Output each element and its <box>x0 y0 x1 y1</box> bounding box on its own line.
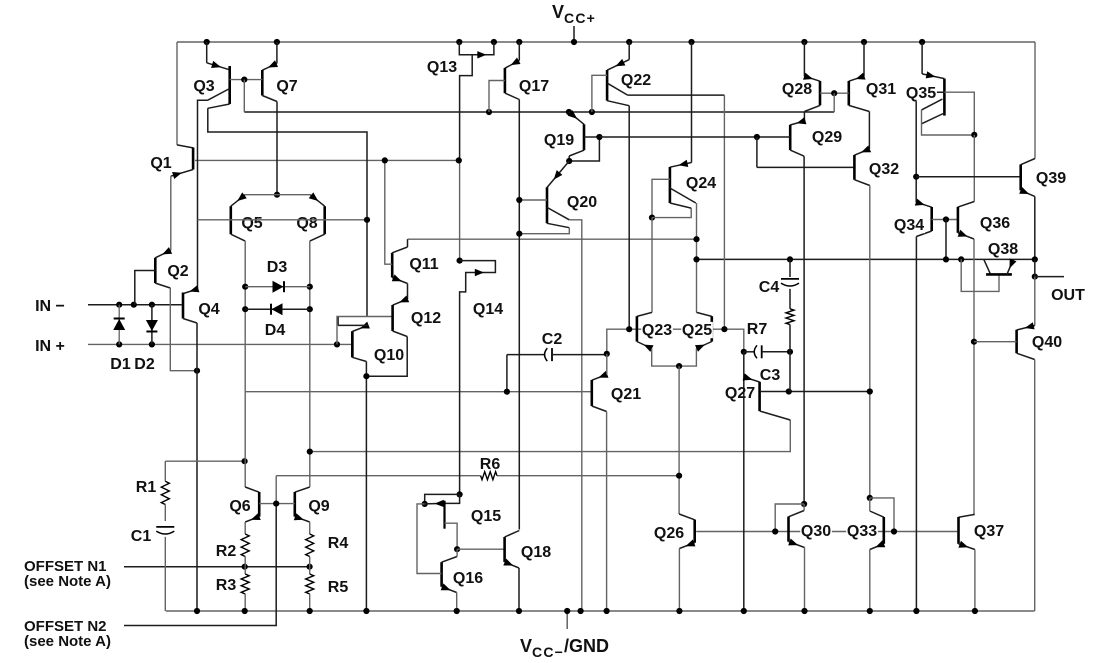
svg-text:Q31: Q31 <box>866 81 896 98</box>
wire Q19 base loop <box>569 137 599 161</box>
svg-text:C3: C3 <box>760 367 781 384</box>
wire OFFSET N2 line <box>124 504 276 626</box>
svg-text:Q2: Q2 <box>167 263 188 280</box>
transistor Q10 <box>351 331 354 357</box>
transistor Q25 <box>697 312 712 316</box>
svg-text:Q7: Q7 <box>276 78 297 95</box>
svg-text:Q39: Q39 <box>1036 170 1066 187</box>
transistor Q36 <box>958 202 974 208</box>
svg-text:Q17: Q17 <box>519 78 549 95</box>
svg-text:OUT: OUT <box>1051 287 1085 304</box>
svg-text:Q35: Q35 <box>906 85 936 102</box>
transistor Q34 <box>916 202 932 207</box>
transistor Q5 <box>274 192 280 198</box>
svg-text:Q27: Q27 <box>725 385 755 402</box>
wire y137 Q19-base to Q29-base <box>599 136 790 138</box>
transistor Q14 <box>457 258 463 264</box>
diode D2 <box>151 305 153 345</box>
transistor Q15 <box>457 491 463 497</box>
svg-text:D3: D3 <box>267 259 288 276</box>
wire VCC- tick <box>566 611 568 629</box>
svg-text:Q40: Q40 <box>1032 334 1062 351</box>
svg-text:Q15: Q15 <box>471 508 501 525</box>
transistor Q18 <box>457 548 505 550</box>
wire OFFSET N1 line <box>124 566 310 568</box>
svg-text:R1: R1 <box>136 479 157 496</box>
transistor Q33 <box>867 495 873 501</box>
transistor Q27 <box>741 349 747 355</box>
transistor Q17 <box>516 39 522 45</box>
wire Q23/Q25 base line <box>607 329 744 354</box>
svg-text:Q3: Q3 <box>193 78 214 95</box>
wire N2 riser <box>275 476 277 504</box>
transistor Q9 <box>295 487 310 492</box>
svg-text:Q11: Q11 <box>409 256 438 273</box>
svg-text:R6: R6 <box>480 456 501 473</box>
resistor R6 <box>481 472 497 480</box>
transistor Q7 <box>274 39 280 45</box>
wire Q8 collector chain <box>309 241 311 287</box>
wire R1 top to Q6 collector <box>165 460 244 462</box>
transistor Q4 <box>183 289 198 294</box>
wire Q6/Q9 base tie <box>259 503 295 505</box>
transistor Q22 (dual collector) <box>626 39 632 45</box>
capacitor C3 <box>744 351 754 353</box>
wire Q3/Q7 base node <box>230 79 263 81</box>
transistor Q2 <box>155 250 171 257</box>
transistor Q6 <box>244 392 246 487</box>
svg-text:R4: R4 <box>328 535 349 552</box>
label Q34 <box>893 217 925 233</box>
svg-text:Q38: Q38 <box>988 241 1018 258</box>
svg-text:Q24: Q24 <box>686 175 716 192</box>
wire y476 bias line <box>276 475 480 477</box>
resistor R1 <box>164 461 166 481</box>
svg-text:R5: R5 <box>328 579 349 596</box>
svg-text:Q25: Q25 <box>682 322 712 339</box>
svg-text:Q9: Q9 <box>308 498 329 515</box>
wire VCC+ tick <box>573 26 575 42</box>
node Q19 emitter on y112 <box>566 109 572 115</box>
svg-text:R2: R2 <box>216 543 237 560</box>
svg-text:IN −: IN − <box>35 298 65 315</box>
svg-text:Q32: Q32 <box>869 161 899 178</box>
svg-text:Q23: Q23 <box>642 322 672 339</box>
wire Q28/Q31 base node <box>820 92 849 94</box>
svg-text:Q5: Q5 <box>241 215 262 232</box>
transistor Q38 <box>958 256 964 262</box>
svg-text:Q6: Q6 <box>229 498 250 515</box>
svg-text:Q14: Q14 <box>473 301 503 318</box>
wire base rail y112 <box>244 111 834 113</box>
diode D1 <box>118 305 120 345</box>
svg-text:Q34: Q34 <box>894 217 924 234</box>
wire Q5 collector chain <box>244 241 246 287</box>
transistor Q20 (dual collector) <box>547 161 569 188</box>
wire Q23/Q25 emitters down to Q26 <box>678 366 680 514</box>
node Q17 base on y112 <box>486 109 492 115</box>
resistor R4 <box>309 522 311 534</box>
resistor R7 <box>786 309 794 325</box>
wire Q10 collector down to rail <box>352 357 366 361</box>
resistor R3 <box>244 567 246 574</box>
wire Q1 emitter to Q2 <box>170 176 172 250</box>
resistor R5 <box>309 567 311 574</box>
capacitor C4 <box>787 256 793 262</box>
svg-text:Q37: Q37 <box>974 523 1004 540</box>
transistor Q13 <box>456 39 462 45</box>
wire Q2 collector down <box>170 288 197 371</box>
svg-text:Q29: Q29 <box>812 129 842 146</box>
transistor Q3 (dual collector) <box>204 39 210 45</box>
svg-text:Q20: Q20 <box>567 194 597 211</box>
svg-text:Q10: Q10 <box>374 347 404 364</box>
svg-text:C4: C4 <box>759 279 780 296</box>
capacitor C2 <box>507 354 545 356</box>
wire Q36-base to Q38 <box>945 220 947 260</box>
wire y239 <box>408 238 697 240</box>
label Q30 <box>800 523 832 539</box>
transistor Q29 <box>790 121 804 125</box>
svg-text:Q33: Q33 <box>847 523 877 540</box>
wire y259 <box>697 258 1035 260</box>
svg-text:(see Note A): (see Note A) <box>24 573 111 590</box>
svg-text:Q12: Q12 <box>411 310 441 327</box>
transistor Q40 <box>1034 277 1036 326</box>
wire y392 to Q21 base <box>245 391 591 393</box>
wire bias line y160 <box>195 159 460 161</box>
wire y451 Q9-collector to Q27-collector <box>310 420 791 452</box>
resistor R2 <box>244 522 246 534</box>
transistor Q32 <box>757 166 855 168</box>
label Q25 <box>681 322 713 338</box>
svg-text:Q36: Q36 <box>980 215 1010 232</box>
transistor Q16 <box>442 557 458 563</box>
diode D3 <box>245 286 310 288</box>
svg-text:IN +: IN + <box>35 338 65 355</box>
wire Q34 emitter riser to Q39 base <box>916 176 1021 178</box>
svg-text:D2: D2 <box>134 356 155 373</box>
wire y531 Q26 base line <box>696 531 957 533</box>
svg-text:C1: C1 <box>131 528 152 545</box>
transistor Q21 <box>592 375 607 381</box>
transistor Q24 (dual collector) <box>688 39 694 45</box>
transistor Q12 <box>393 299 408 305</box>
wire Q2 base <box>135 271 156 305</box>
wire IN+ line <box>88 343 352 345</box>
transistor Q11 <box>391 253 394 278</box>
wire VCC+ rail <box>177 41 1035 43</box>
svg-text:(see Note A): (see Note A) <box>24 633 111 650</box>
svg-text:Q26: Q26 <box>654 525 684 542</box>
svg-text:Q19: Q19 <box>544 132 574 149</box>
svg-text:D4: D4 <box>265 322 286 339</box>
transistor Q19 <box>569 112 584 124</box>
svg-text:Q22: Q22 <box>621 72 651 89</box>
svg-text:Q13: Q13 <box>427 59 457 76</box>
transistor Q37 <box>959 514 975 517</box>
transistor Q39 <box>1034 42 1036 159</box>
label Q33 <box>846 523 878 539</box>
transistor Q30 <box>801 501 807 507</box>
svg-text:Q30: Q30 <box>801 523 831 540</box>
label Q23 <box>641 322 673 338</box>
wire IN- line <box>88 304 182 306</box>
svg-text:Q8: Q8 <box>296 215 317 232</box>
transistor Q8 <box>310 195 324 207</box>
wire Q10 emitter loop to Q12 base <box>352 325 367 331</box>
wire Q13 to Q14 <box>459 160 461 260</box>
svg-text:Q21: Q21 <box>611 386 641 403</box>
svg-text:Q18: Q18 <box>521 544 551 561</box>
label Q38 <box>987 241 1019 257</box>
diode D4 <box>245 308 310 310</box>
node rail dots bottom <box>194 608 200 614</box>
wire Q12 base stair from IN+ <box>337 317 393 345</box>
label Q35 <box>905 85 937 101</box>
transistor Q23 <box>651 218 653 313</box>
svg-text:Q28: Q28 <box>782 81 812 98</box>
transistor Q31 <box>861 39 867 45</box>
svg-text:D1: D1 <box>110 356 131 373</box>
transistor Q26 <box>679 514 695 520</box>
svg-text:Q16: Q16 <box>453 570 483 587</box>
svg-text:Q1: Q1 <box>150 155 171 172</box>
transistor Q35 (dual collector) <box>919 39 925 45</box>
svg-text:Q4: Q4 <box>198 301 219 318</box>
wire Q5/Q8 base line <box>198 219 368 221</box>
node OUT <box>1032 274 1038 280</box>
svg-text:C2: C2 <box>542 331 563 348</box>
transistor Q1 <box>176 42 178 145</box>
wire VCC- rail <box>166 610 1035 612</box>
svg-text:R3: R3 <box>216 577 237 594</box>
node Q22 base on y112 <box>589 109 595 115</box>
transistor Q28 <box>801 39 807 45</box>
label Q37 <box>973 523 1005 539</box>
capacitor C1 <box>156 526 174 528</box>
svg-text:R7: R7 <box>747 321 768 338</box>
